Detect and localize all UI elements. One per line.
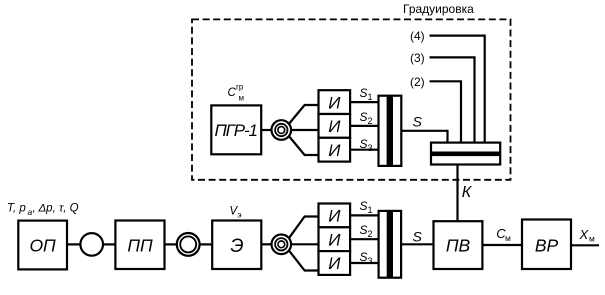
svg-text:1: 1 — [368, 92, 373, 102]
AND block И (top 3) — [319, 138, 351, 162]
label S1 (bottom) — [360, 199, 373, 215]
svg-text:И: И — [328, 117, 341, 136]
wire fan bottom-middle — [291, 243, 318, 245]
wire S (bottom) to ПВ — [401, 243, 433, 245]
selector block (bottom) — [379, 211, 402, 278]
AND block И (bottom 3) — [319, 251, 351, 275]
wire И3 to selector (top) — [350, 149, 378, 151]
label Cм — [496, 226, 511, 243]
label S1 (top) — [360, 86, 373, 102]
svg-text:S: S — [360, 110, 368, 124]
connector triple circle (bottom) — [272, 235, 292, 255]
AND block И (bottom 2) — [319, 227, 351, 251]
wire (3) to switch — [430, 57, 475, 142]
wire И1 to selector (bottom) — [350, 214, 379, 216]
connector single circle — [80, 233, 103, 256]
svg-text:ОП: ОП — [29, 235, 56, 255]
calibration region dashed border — [192, 19, 511, 179]
wire K (switch to ПВ) — [456, 165, 458, 222]
svg-text:S: S — [413, 228, 423, 244]
block ПГР-1 — [211, 105, 261, 154]
block ОП — [18, 221, 67, 270]
wire double circle to Э — [200, 243, 213, 245]
svg-text:Э: Э — [230, 236, 243, 257]
svg-text:1: 1 — [368, 205, 373, 215]
svg-text:2: 2 — [368, 116, 373, 126]
wire ОП to circle — [67, 243, 80, 245]
AND block И (bottom 1) — [319, 204, 351, 228]
svg-text:Градуировка: Градуировка — [403, 2, 474, 16]
svg-text:К: К — [462, 184, 473, 201]
AND block И (top 2) — [319, 114, 351, 138]
wire ПП to double circle — [165, 243, 177, 245]
svg-text:ПВ: ПВ — [446, 236, 471, 256]
label S2 (bottom) — [360, 223, 373, 239]
svg-text:гр: гр — [236, 83, 244, 92]
wire output — [571, 244, 599, 246]
label S2 (top) — [360, 110, 373, 126]
wire ПГР-1 to connector — [261, 129, 272, 131]
block ПВ — [434, 221, 483, 269]
wire И3 to selector (bottom) — [350, 262, 379, 264]
svg-text:S: S — [360, 86, 368, 100]
svg-text:3: 3 — [368, 256, 373, 266]
connector triple circle (top) — [272, 120, 292, 140]
svg-text:ВР: ВР — [535, 236, 559, 256]
svg-text:И: И — [328, 254, 341, 273]
wire fan bottom-upper — [289, 217, 319, 239]
wire S (top) to switch — [401, 131, 447, 143]
svg-text:И: И — [328, 230, 341, 249]
svg-text:И: И — [328, 93, 341, 112]
svg-text:(4): (4) — [410, 29, 425, 43]
selector block (top) — [379, 96, 402, 166]
label input parameters T, pа, Δp, τ, Q — [7, 203, 79, 218]
wire Э to triple circle — [261, 243, 272, 245]
svg-text:S: S — [360, 223, 368, 237]
svg-text:ПГР-1: ПГР-1 — [214, 121, 258, 140]
label Vэ — [230, 206, 242, 220]
wire И2 to selector (top) — [350, 125, 378, 127]
connector double circle — [177, 233, 200, 256]
svg-text:м: м — [239, 94, 245, 103]
svg-text:T, p: T, p — [7, 203, 26, 215]
label Cм гр — [228, 83, 245, 103]
AND block И (top 1) — [319, 90, 351, 114]
block ПП — [115, 221, 164, 270]
svg-text:S: S — [360, 199, 368, 213]
label S3 (top) — [360, 137, 373, 153]
wire circle to ПП — [103, 243, 115, 245]
wire fan bottom-lower — [289, 250, 319, 270]
svg-text:, Δp, τ, Q: , Δp, τ, Q — [33, 203, 79, 215]
svg-text:(3): (3) — [410, 51, 425, 65]
svg-text:И: И — [328, 207, 341, 226]
wire fan top-middle — [291, 129, 318, 131]
block ВР — [522, 220, 571, 270]
svg-text:X: X — [579, 227, 590, 242]
label S3 (bottom) — [360, 250, 373, 266]
wire ПВ to ВР — [482, 244, 522, 246]
svg-text:S: S — [413, 113, 423, 129]
svg-text:э: э — [238, 210, 242, 219]
wire fan top-lower — [289, 136, 319, 155]
wire (2) to switch — [430, 81, 462, 142]
wire (4) to switch — [430, 36, 485, 143]
svg-text:И: И — [328, 141, 341, 160]
svg-text:2: 2 — [368, 229, 373, 239]
label Xм — [579, 227, 596, 244]
svg-text:3: 3 — [368, 143, 373, 153]
block Э — [212, 221, 261, 270]
svg-text:ПП: ПП — [127, 235, 153, 255]
switch block — [431, 143, 500, 165]
wire И1 to selector (top) — [350, 101, 378, 103]
svg-text:(2): (2) — [410, 75, 425, 89]
wire И2 to selector (bottom) — [350, 238, 379, 240]
svg-text:м: м — [505, 233, 511, 243]
wire fan top-upper — [289, 105, 319, 124]
svg-text:м: м — [589, 234, 595, 244]
